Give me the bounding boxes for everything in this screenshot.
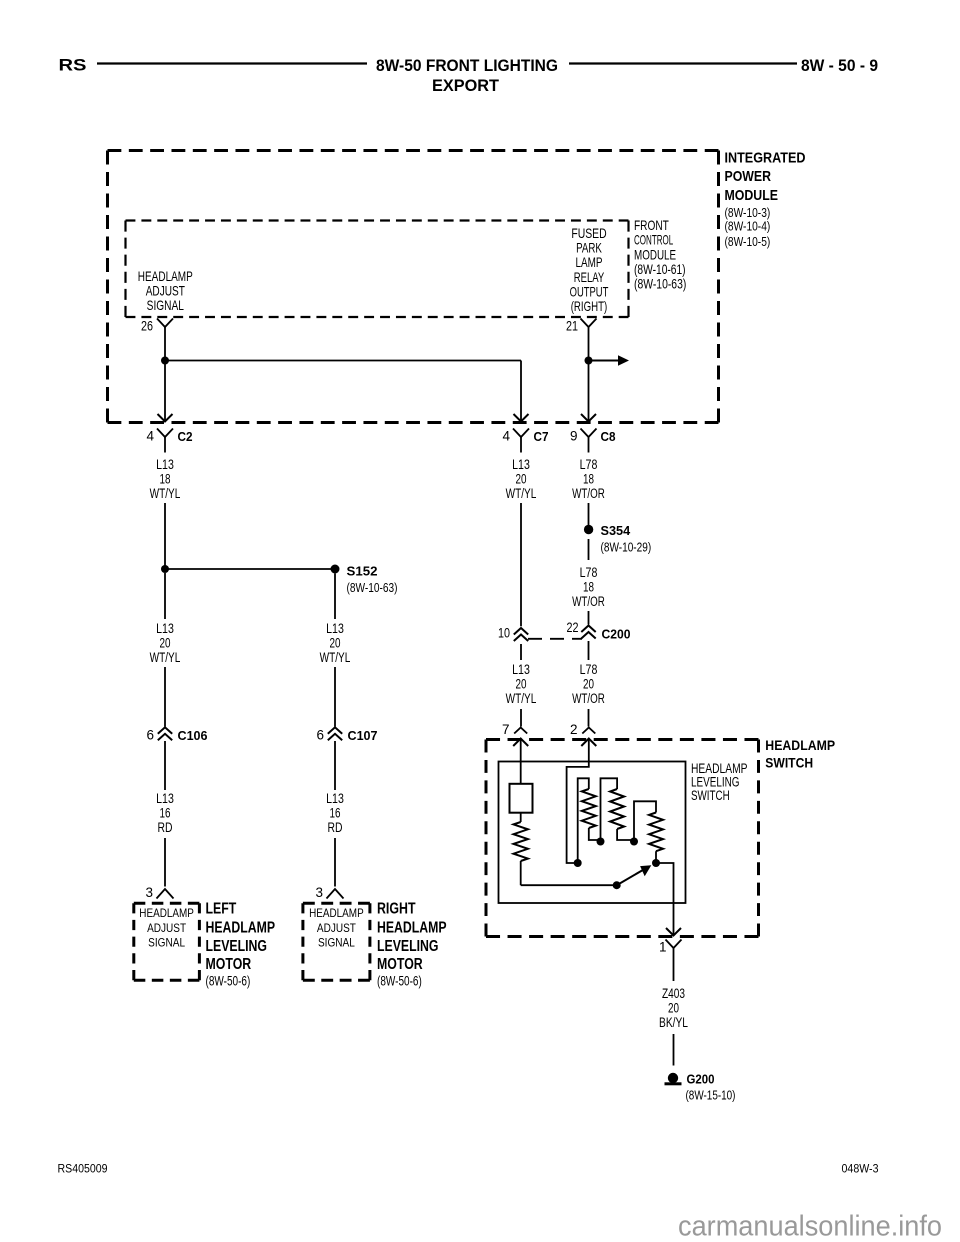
wire below C106 <box>164 741 166 790</box>
wire to left motor pin 3 <box>164 838 166 887</box>
svg-text:WT/YL: WT/YL <box>506 691 537 706</box>
junction dot on pin 21 wire <box>585 357 593 365</box>
svg-text:18: 18 <box>583 472 594 487</box>
svg-text:ADJUST: ADJUST <box>147 921 187 935</box>
svg-text:10: 10 <box>498 626 510 641</box>
wire to C200 pin 22 <box>588 611 590 625</box>
svg-text:CONTROL: CONTROL <box>634 232 673 248</box>
wire drop to C7 with arrowhead <box>520 361 522 421</box>
svg-text:L13: L13 <box>156 457 174 472</box>
wire below C200 pin 22 <box>588 641 590 660</box>
pin 2 entry arrow into headlamp switch <box>581 739 596 747</box>
svg-text:L13: L13 <box>326 621 344 636</box>
svg-text:20: 20 <box>516 472 527 487</box>
right headlamp leveling motor dashed box <box>303 902 370 905</box>
svg-text:7: 7 <box>502 722 510 737</box>
branch arrow to right from pin 21 wire <box>589 360 619 362</box>
header rule left <box>97 62 367 64</box>
wire pin 2 jog into leveling switch <box>567 739 589 864</box>
svg-text:LAMP: LAMP <box>576 254 603 270</box>
svg-text:L78: L78 <box>580 662 598 677</box>
wire S354 down <box>588 539 590 560</box>
wire D4 to headlamp switch pin 1 <box>656 863 674 935</box>
svg-text:BK/YL: BK/YL <box>659 1015 688 1030</box>
wire to headlamp switch pin 2 <box>588 709 590 727</box>
svg-text:carmanualsonline.info: carmanualsonline.info <box>678 1211 942 1242</box>
splice S354 <box>584 525 593 534</box>
wire C8 to splice S354 <box>588 503 590 525</box>
lead R2 to node D3 <box>617 829 634 842</box>
svg-text:(RIGHT): (RIGHT) <box>571 298 608 314</box>
svg-text:22: 22 <box>567 620 579 635</box>
svg-text:6: 6 <box>316 728 324 743</box>
svg-text:HEADLAMP: HEADLAMP <box>139 906 194 920</box>
svg-text:WT/OR: WT/OR <box>572 691 605 706</box>
wire below C2 <box>164 437 166 453</box>
svg-text:S354: S354 <box>601 523 631 538</box>
svg-text:WT/YL: WT/YL <box>506 486 537 501</box>
svg-text:L13: L13 <box>512 457 530 472</box>
resistor R1 <box>582 789 596 828</box>
svg-text:C7: C7 <box>534 429 549 444</box>
svg-text:SIGNAL: SIGNAL <box>147 297 184 313</box>
svg-text:26: 26 <box>141 319 153 334</box>
front control module dashed box <box>126 219 629 221</box>
left headlamp leveling motor dashed box <box>134 902 200 905</box>
splice S152 <box>331 565 340 574</box>
svg-text:RD: RD <box>158 820 173 835</box>
svg-text:RS: RS <box>59 56 87 75</box>
svg-text:20: 20 <box>668 1001 679 1016</box>
svg-text:(8W-10-5): (8W-10-5) <box>725 234 771 249</box>
node dot D4 (wiper contact) <box>652 859 660 867</box>
svg-text:LEFT: LEFT <box>206 901 237 918</box>
svg-text:18: 18 <box>583 580 594 595</box>
wire to headlamp switch pin 7 <box>520 709 522 727</box>
wire below C7 <box>520 437 522 453</box>
svg-text:C8: C8 <box>601 429 616 444</box>
svg-text:9: 9 <box>570 429 578 444</box>
svg-text:MODULE: MODULE <box>634 246 676 262</box>
svg-text:18: 18 <box>160 472 171 487</box>
svg-text:EXPORT: EXPORT <box>432 76 500 95</box>
svg-text:C200: C200 <box>602 627 631 642</box>
svg-text:RELAY: RELAY <box>574 269 605 285</box>
svg-text:20: 20 <box>516 676 527 691</box>
wire S152 horizontal tie <box>165 568 335 570</box>
riser from D3 to resistor R3 <box>634 801 656 841</box>
wire junction to C7 drop (horizontal) <box>165 360 521 362</box>
wire junction down to C2 with arrowhead <box>164 361 166 421</box>
pin 7 entry arrow into headlamp switch <box>513 739 528 747</box>
svg-text:20: 20 <box>330 636 341 651</box>
svg-text:4: 4 <box>146 429 154 444</box>
C200 dashed tie line <box>528 638 582 640</box>
resistor R2 <box>610 789 624 829</box>
wire pin 21 down to C8 with arrowhead <box>588 327 590 421</box>
svg-text:RS405009: RS405009 <box>58 1164 108 1176</box>
svg-text:20: 20 <box>160 636 171 651</box>
svg-text:C107: C107 <box>348 728 378 743</box>
svg-text:POWER: POWER <box>725 168 772 185</box>
svg-text:RIGHT: RIGHT <box>377 901 416 918</box>
switch wiper arm with arrowhead <box>617 869 646 886</box>
wire below pin 1 <box>673 948 675 981</box>
svg-text:2: 2 <box>570 722 578 737</box>
svg-text:MOTOR: MOTOR <box>206 956 252 973</box>
ground G200 symbol <box>668 1073 678 1083</box>
resistor left in leveling switch <box>514 822 528 861</box>
svg-text:HEADLAMP: HEADLAMP <box>206 920 276 937</box>
svg-text:(8W-10-61): (8W-10-61) <box>634 261 686 277</box>
wire to ground G200 <box>673 1034 675 1066</box>
svg-text:SIGNAL: SIGNAL <box>148 936 185 950</box>
svg-text:LEVELING: LEVELING <box>206 938 268 955</box>
svg-text:G200: G200 <box>687 1072 715 1087</box>
wire to C107 <box>334 667 336 727</box>
wire resistor to switch common <box>520 861 522 885</box>
svg-text:FRONT: FRONT <box>634 217 669 233</box>
svg-text:SIGNAL: SIGNAL <box>318 936 355 950</box>
svg-text:L13: L13 <box>512 662 530 677</box>
svg-text:20: 20 <box>583 676 594 691</box>
svg-text:(8W-50-6): (8W-50-6) <box>377 974 422 989</box>
svg-text:RD: RD <box>328 820 343 835</box>
svg-text:048W-3: 048W-3 <box>842 1164 879 1176</box>
svg-text:MOTOR: MOTOR <box>377 956 423 973</box>
svg-text:ADJUST: ADJUST <box>146 282 186 298</box>
node dot D2 <box>597 838 605 846</box>
svg-text:S152: S152 <box>347 564 378 579</box>
integrated power module dashed box <box>108 149 719 152</box>
svg-text:ADJUST: ADJUST <box>317 921 357 935</box>
wire block to resistor <box>520 813 522 822</box>
headlamp switch dashed box <box>486 738 759 741</box>
wire below C8 <box>588 437 590 453</box>
resistor R3 <box>649 813 663 852</box>
svg-text:(8W-50-6): (8W-50-6) <box>206 974 251 989</box>
riser from D1 to resistor R1 <box>578 778 589 863</box>
svg-text:L78: L78 <box>580 565 598 580</box>
svg-text:WT/YL: WT/YL <box>150 650 181 665</box>
svg-text:3: 3 <box>315 885 323 900</box>
lead R1 to node D2 <box>589 828 601 842</box>
switch pivot dot <box>613 881 621 889</box>
junction dot below pin 26 <box>161 357 169 365</box>
svg-text:C2: C2 <box>178 429 193 444</box>
wire C2 to splice S152 <box>164 503 166 569</box>
wire S152 down (right branch) <box>334 574 336 620</box>
svg-text:L13: L13 <box>156 621 174 636</box>
wire pin 7 into leveling switch <box>520 739 522 784</box>
riser from D2 to resistor R2 <box>601 778 618 841</box>
node dot D3 <box>630 838 638 846</box>
headlamp leveling switch inner box <box>499 762 686 904</box>
svg-text:INTEGRATED: INTEGRATED <box>725 149 806 166</box>
svg-text:(8W-10-29): (8W-10-29) <box>601 540 652 555</box>
svg-text:WT/YL: WT/YL <box>320 650 351 665</box>
svg-text:16: 16 <box>160 806 171 821</box>
svg-text:FUSED: FUSED <box>571 225 606 241</box>
svg-text:3: 3 <box>145 885 153 900</box>
wire pin 26 to junction <box>164 327 166 361</box>
svg-text:8W - 50 - 9: 8W - 50 - 9 <box>801 56 878 75</box>
svg-text:OUTPUT: OUTPUT <box>570 283 609 299</box>
wire C7 to C200 <box>520 503 522 626</box>
junction dot at S152 left <box>161 565 169 573</box>
svg-text:HEADLAMP: HEADLAMP <box>377 920 447 937</box>
wire to C106 <box>164 667 166 727</box>
svg-text:LEVELING: LEVELING <box>377 938 439 955</box>
svg-text:L13: L13 <box>156 791 174 806</box>
svg-text:(8W-10-4): (8W-10-4) <box>725 219 771 234</box>
svg-text:6: 6 <box>146 728 154 743</box>
wire to right motor pin 3 <box>334 838 336 887</box>
svg-text:16: 16 <box>330 806 341 821</box>
svg-text:HEADLAMP: HEADLAMP <box>765 737 835 753</box>
svg-text:L78: L78 <box>580 457 598 472</box>
svg-text:HEADLAMP: HEADLAMP <box>309 906 364 920</box>
svg-text:MODULE: MODULE <box>725 187 779 204</box>
node dot D1 <box>574 859 582 867</box>
svg-text:SWITCH: SWITCH <box>691 788 730 803</box>
svg-text:21: 21 <box>566 319 578 334</box>
svg-text:8W-50 FRONT LIGHTING: 8W-50 FRONT LIGHTING <box>376 56 558 75</box>
svg-text:Z403: Z403 <box>662 986 685 1001</box>
svg-text:(8W-10-63): (8W-10-63) <box>347 580 398 595</box>
svg-text:WT/YL: WT/YL <box>150 486 181 501</box>
svg-text:PARK: PARK <box>576 240 602 256</box>
svg-text:(8W-10-63): (8W-10-63) <box>634 276 686 292</box>
header rule right <box>569 62 797 64</box>
wire S152 down (left branch) <box>164 573 166 619</box>
svg-text:(8W-15-10): (8W-15-10) <box>686 1088 736 1103</box>
svg-text:WT/OR: WT/OR <box>572 594 605 609</box>
svg-text:C106: C106 <box>178 728 208 743</box>
svg-text:1: 1 <box>659 940 667 955</box>
svg-text:L13: L13 <box>326 791 344 806</box>
wire below C200 pin 10 <box>520 644 522 660</box>
component block in leveling switch <box>510 784 533 813</box>
svg-text:WT/OR: WT/OR <box>572 486 605 501</box>
svg-text:SWITCH: SWITCH <box>765 755 813 771</box>
lead R3 to node D4 <box>655 851 657 863</box>
wire below C107 <box>334 741 336 790</box>
svg-text:4: 4 <box>502 429 510 444</box>
